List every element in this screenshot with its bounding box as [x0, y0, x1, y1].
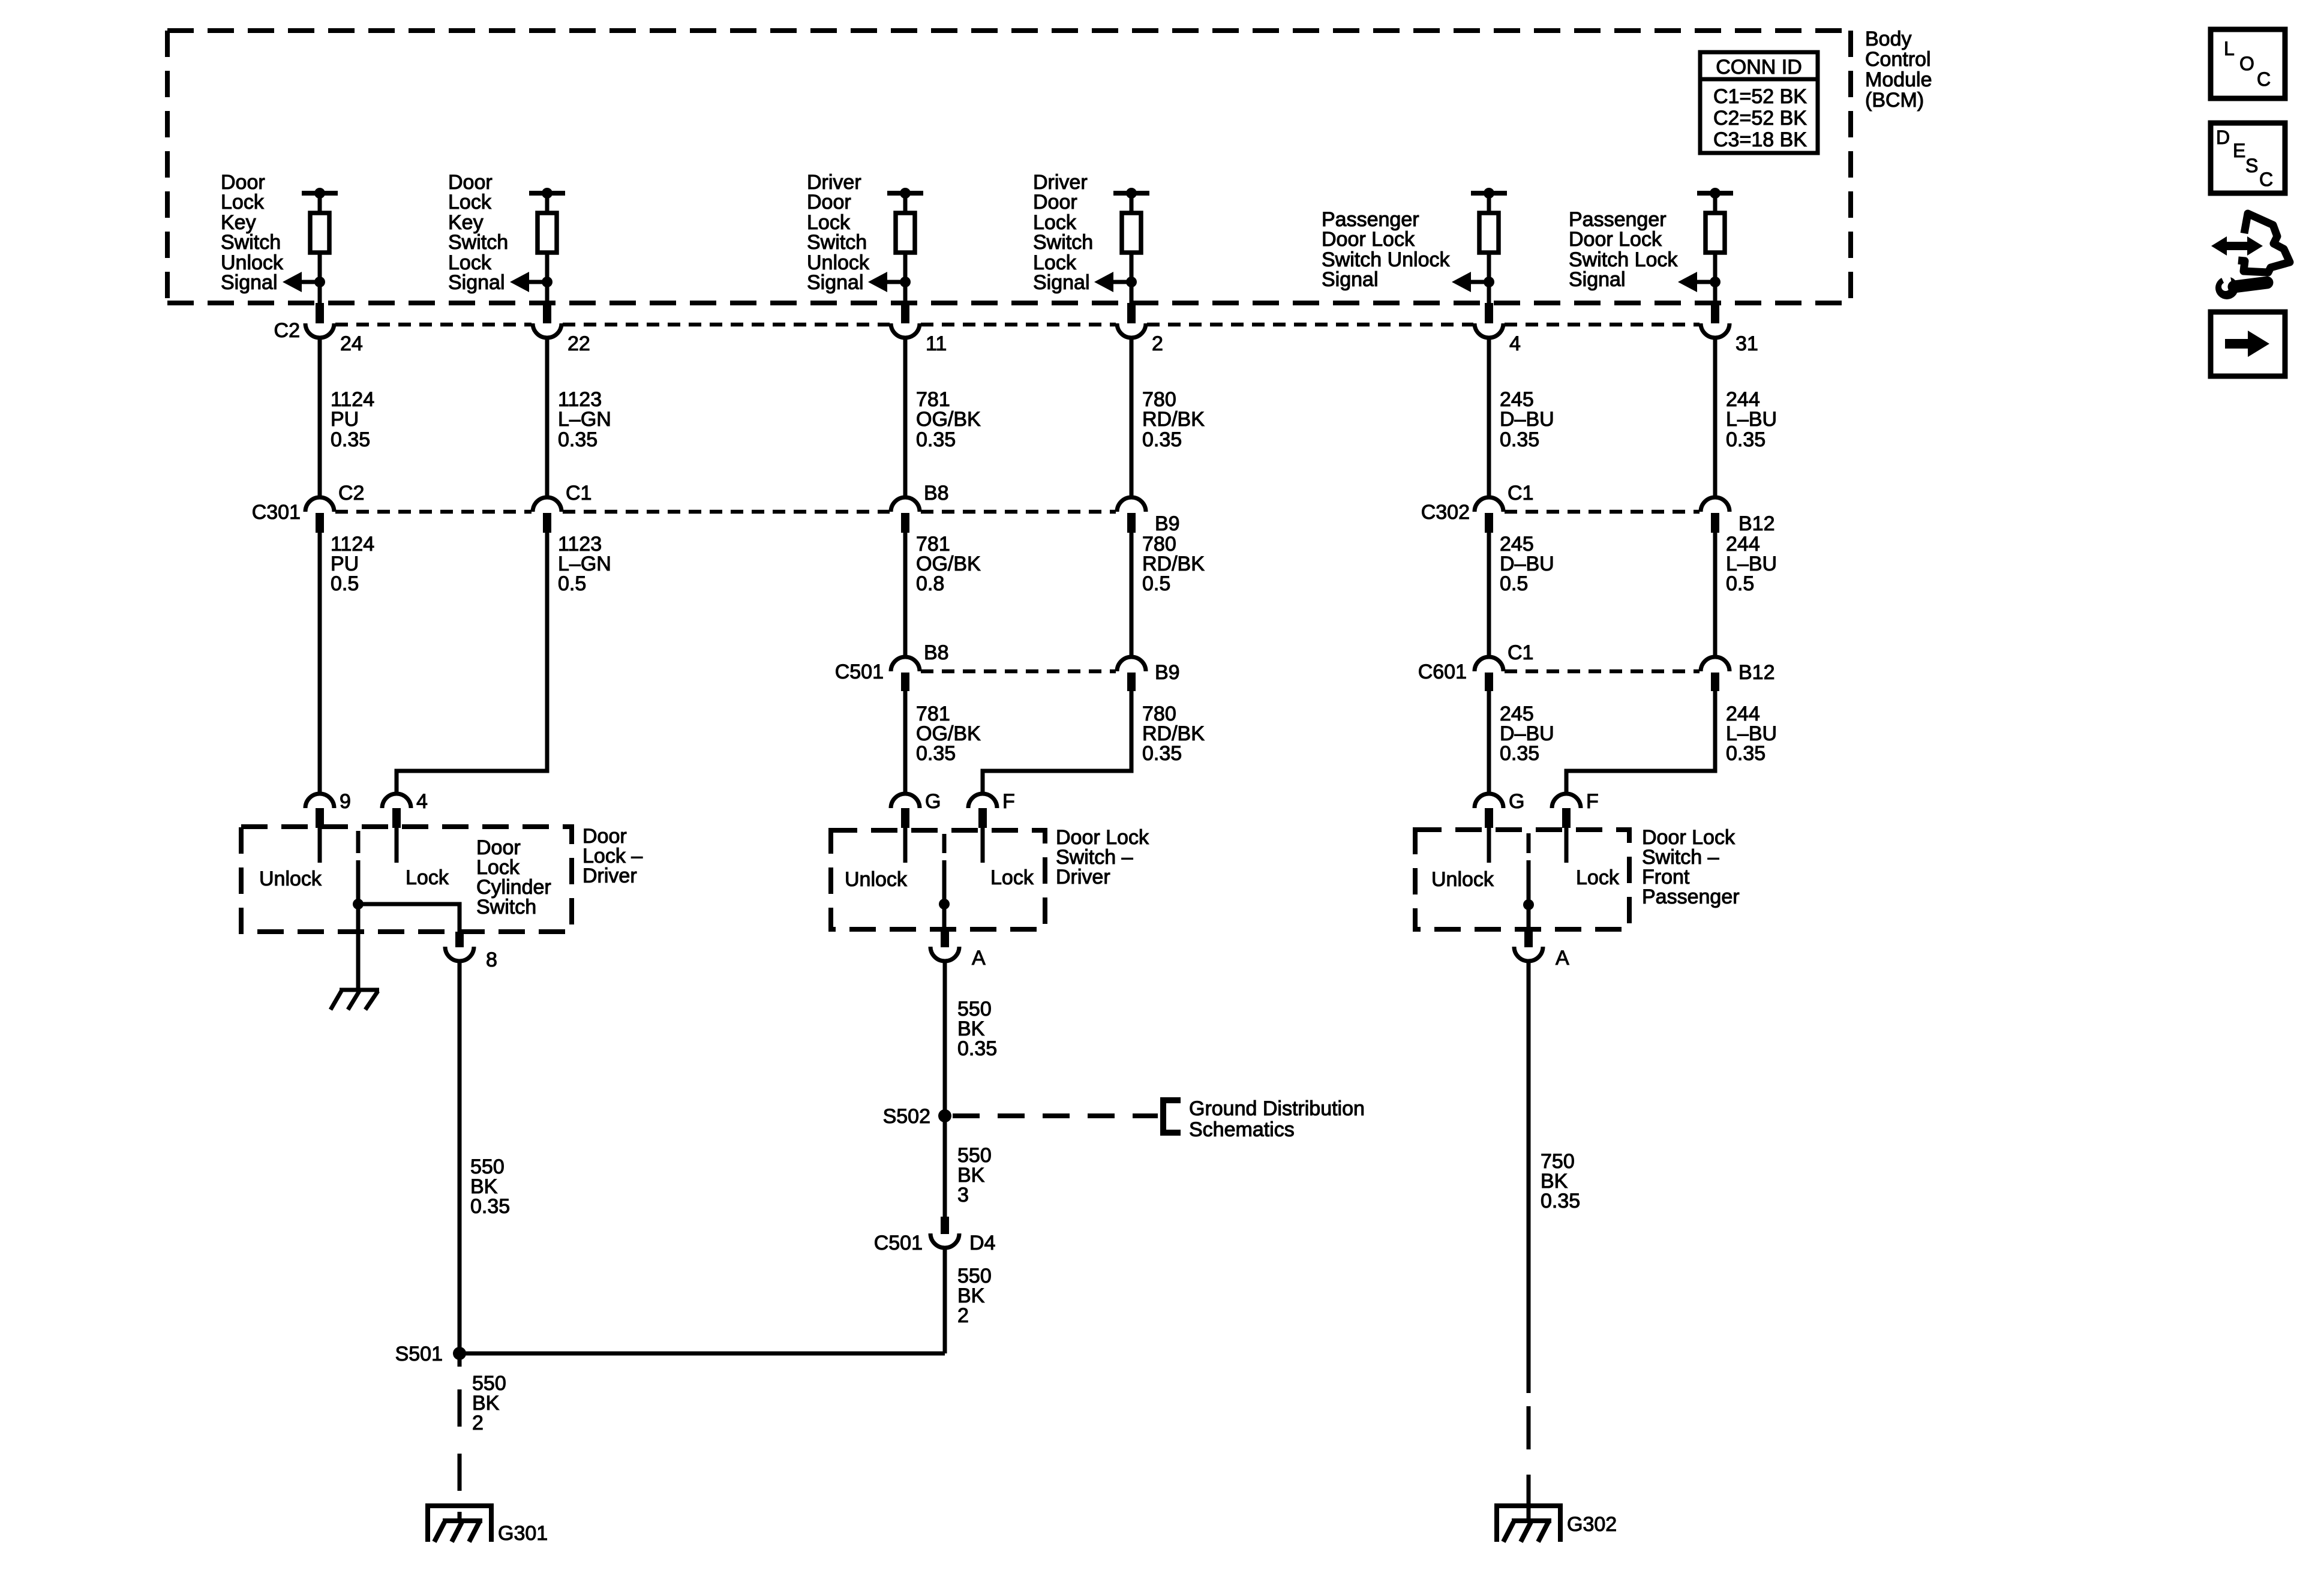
- switch connector terminal 4: [382, 794, 411, 828]
- terminal C1 label: [566, 482, 591, 505]
- in-line connector C501 terminal D4: [930, 1217, 959, 1248]
- switch connector terminal A (driver): [930, 929, 959, 961]
- svg-text:G: G: [925, 790, 941, 813]
- wire: [1713, 253, 1718, 303]
- svg-text:0.35: 0.35: [1500, 742, 1539, 765]
- connector C501/C601 terminal B8: [891, 657, 920, 691]
- signal tap arrow, unit 2: [510, 272, 553, 292]
- resistor (switch sense load), unit 4: [1122, 213, 1141, 253]
- BCM connector C2 cavity 31: [1701, 303, 1730, 338]
- wire: [1713, 193, 1718, 214]
- node: internal supply T-bar, unit 1: [302, 188, 338, 199]
- svg-text:B9: B9: [1155, 512, 1180, 535]
- svg-text:0.35: 0.35: [1541, 1190, 1580, 1212]
- svg-text:Signal: Signal: [807, 271, 864, 294]
- svg-text:D: D: [2216, 127, 2230, 148]
- svg-text:4: 4: [416, 790, 428, 813]
- wire: [1487, 253, 1491, 303]
- svg-text:Door Lock: Door Lock: [1569, 228, 1662, 251]
- ground distribution bracket: [1163, 1100, 1181, 1133]
- terminal A label: [1556, 947, 1569, 969]
- terminal B9 label: [1155, 661, 1180, 684]
- svg-text:(BCM): (BCM): [1865, 89, 1924, 112]
- svg-text:Lock: Lock: [1576, 866, 1620, 889]
- svg-text:Switch: Switch: [221, 231, 281, 254]
- wire label circuit 550: [957, 998, 997, 1060]
- Lock contact label: [990, 866, 1034, 889]
- svg-text:Lock: Lock: [990, 866, 1034, 889]
- Door Lock Key Switch Lock Signal driver label: [448, 171, 508, 294]
- Driver Door Lock Switch Lock Signal driver label: [1033, 171, 1093, 294]
- wire: [545, 253, 550, 303]
- switch connector terminal 8: [445, 932, 474, 961]
- svg-text:0.35: 0.35: [1726, 428, 1765, 451]
- svg-text:Driver: Driver: [1056, 866, 1110, 888]
- svg-text:D–BU: D–BU: [1500, 408, 1554, 431]
- svg-text:Signal: Signal: [448, 271, 505, 294]
- svg-text:C1: C1: [1508, 482, 1533, 505]
- terminal B8 label: [924, 641, 949, 664]
- terminal D4 label: [969, 1232, 995, 1254]
- svg-text:F: F: [1002, 790, 1015, 813]
- svg-text:2: 2: [1152, 332, 1163, 355]
- wire: [903, 193, 908, 214]
- wire D4 to S501 junction: [943, 1248, 947, 1353]
- resistor (switch sense load), unit 6: [1706, 213, 1725, 253]
- svg-text:0.8: 0.8: [916, 572, 944, 595]
- wire label circuit 244: [1726, 388, 1777, 451]
- wire label circuit 244: [1726, 703, 1777, 765]
- ground G302 label: [1567, 1513, 1617, 1536]
- svg-text:B12: B12: [1739, 661, 1775, 684]
- svg-text:C2: C2: [338, 482, 364, 505]
- svg-text:Unlock: Unlock: [1431, 868, 1494, 891]
- wire label circuit 245: [1500, 533, 1554, 595]
- wire label circuit 780: [1142, 703, 1205, 765]
- svg-text:0.35: 0.35: [331, 428, 370, 451]
- svg-text:L–GN: L–GN: [558, 408, 611, 431]
- wire label circuit 750: [1541, 1150, 1580, 1212]
- wire label circuit 1124: [331, 533, 374, 595]
- terminal G label: [1509, 790, 1524, 813]
- connector C501 label: [874, 1232, 923, 1254]
- svg-text:Body: Body: [1865, 28, 1912, 50]
- switch connector terminal F: [968, 794, 997, 828]
- wire: [903, 691, 908, 794]
- svg-text:Driver: Driver: [582, 864, 637, 887]
- connector C30x terminal C1: [1475, 497, 1503, 533]
- svg-text:E: E: [2233, 140, 2245, 161]
- switch connector terminal G: [1475, 794, 1503, 828]
- terminal 4 label: [416, 790, 428, 813]
- svg-text:22: 22: [568, 332, 590, 355]
- wire: lock contact stub: [395, 828, 399, 863]
- wire from lever to ground: [356, 904, 361, 990]
- terminal B12 label: [1739, 512, 1775, 535]
- svg-text:B9: B9: [1155, 661, 1180, 684]
- LOC navigation icon: [2211, 29, 2285, 98]
- in-line connector C302 dotted line: [1505, 510, 1700, 514]
- wire: [1487, 338, 1491, 499]
- svg-text:RD/BK: RD/BK: [1142, 408, 1205, 431]
- wire: [1713, 533, 1718, 658]
- wire: [903, 338, 908, 499]
- switch lever, cylinder switch: [353, 831, 364, 909]
- wire: [1130, 253, 1134, 303]
- wire: [1487, 691, 1491, 794]
- svg-text:PU: PU: [331, 408, 359, 431]
- wire label circuit 550 gauge 2: [472, 1372, 506, 1434]
- switch connector terminal G: [891, 794, 920, 828]
- Lock contact label: [406, 866, 449, 889]
- wire label circuit 550: [470, 1155, 510, 1218]
- wire label circuit 1124: [331, 388, 374, 451]
- Driver Door Lock Switch Unlock Signal driver label: [807, 171, 870, 294]
- dashed reference line to ground distribution: [953, 1113, 1158, 1118]
- svg-text:0.35: 0.35: [1500, 428, 1539, 451]
- svg-text:F: F: [1586, 790, 1599, 813]
- repair instructions icon (arrow, panel outline, wrench): [2211, 214, 2290, 299]
- wire terminal A to G302: [1527, 961, 1531, 1393]
- wire: [318, 338, 322, 499]
- CONN ID table: [1700, 52, 1818, 153]
- svg-text:Passenger: Passenger: [1642, 885, 1740, 908]
- svg-text:S: S: [2245, 155, 2258, 176]
- splice S501: [453, 1347, 466, 1360]
- svg-text:Switch: Switch: [1033, 231, 1093, 254]
- splice S501 label: [395, 1343, 443, 1365]
- in-line connector C501 dotted line: [921, 670, 1116, 674]
- wire: [1130, 533, 1134, 658]
- Body Control Module (BCM) dashed box: [167, 31, 1851, 303]
- Door Lock Key Switch Unlock Signal driver label: [221, 171, 284, 294]
- wire: [318, 193, 322, 214]
- in-line connector C601 dotted line: [1505, 670, 1700, 674]
- splice S502: [938, 1109, 951, 1122]
- wire from lever to pin 8: [358, 904, 460, 932]
- switch lever, driver door lock switch: [939, 834, 950, 909]
- svg-text:C2=52 BK: C2=52 BK: [1713, 107, 1807, 130]
- DESC navigation icon: [2211, 123, 2285, 193]
- Door Lock Cylinder Switch internal label: [476, 836, 551, 918]
- svg-text:L: L: [2224, 38, 2235, 59]
- svg-text:0.35: 0.35: [1142, 742, 1182, 765]
- connector row C2 dotted harness line: [335, 323, 1700, 327]
- terminal C1 label: [1508, 482, 1533, 505]
- terminal C2 label: [338, 482, 364, 505]
- wire label circuit 781: [916, 533, 981, 595]
- svg-text:0.5: 0.5: [1726, 572, 1754, 595]
- svg-text:0.35: 0.35: [470, 1195, 510, 1218]
- ground G302: [1494, 1503, 1563, 1542]
- svg-text:Schematics: Schematics: [1189, 1118, 1295, 1141]
- wire: [318, 253, 322, 303]
- svg-text:Door: Door: [807, 191, 851, 214]
- svg-text:OG/BK: OG/BK: [916, 408, 981, 431]
- svg-text:C501: C501: [835, 661, 884, 683]
- svg-text:24: 24: [340, 332, 363, 355]
- svg-text:B12: B12: [1739, 512, 1775, 535]
- wire: unlock contact stub: [318, 828, 322, 863]
- svg-text:A: A: [972, 947, 986, 969]
- wire: [545, 193, 550, 214]
- svg-text:C2: C2: [274, 319, 300, 342]
- wire: unlock contact stub: [1487, 828, 1491, 863]
- svg-text:0.35: 0.35: [1726, 742, 1765, 765]
- wire: [1487, 533, 1491, 658]
- svg-text:C601: C601: [1418, 661, 1467, 683]
- Ground Distribution Schematics note: [1189, 1097, 1365, 1141]
- BCM connector C2 cavity 4: [1475, 303, 1503, 338]
- wire terminal A to S502: [943, 961, 947, 1116]
- svg-text:S501: S501: [395, 1343, 443, 1365]
- wire: [1130, 193, 1134, 214]
- wire label circuit 550 gauge 3: [957, 1144, 992, 1206]
- wire label circuit 245: [1500, 388, 1554, 451]
- svg-text:Signal: Signal: [1569, 268, 1626, 291]
- node: internal supply T-bar, unit 5: [1471, 188, 1507, 199]
- resistor (switch sense load), unit 5: [1479, 213, 1499, 253]
- svg-text:9: 9: [340, 790, 351, 813]
- switch connector terminal A (passenger): [1514, 929, 1543, 961]
- connector C501 label: [835, 661, 884, 683]
- svg-text:C301: C301: [252, 501, 301, 524]
- wire: [545, 338, 550, 499]
- svg-text:G: G: [1509, 790, 1524, 813]
- svg-text:2: 2: [957, 1304, 969, 1327]
- signal tap arrow, unit 1: [283, 272, 325, 292]
- wire S502 to C501 D4: [943, 1116, 947, 1217]
- wire label circuit 244: [1726, 533, 1777, 595]
- svg-text:2: 2: [472, 1412, 484, 1434]
- pin 4 label: [1509, 332, 1521, 355]
- svg-text:0.5: 0.5: [1500, 572, 1528, 595]
- svg-text:11: 11: [926, 332, 947, 355]
- node: internal supply T-bar, unit 2: [529, 188, 565, 199]
- svg-text:C302: C302: [1421, 501, 1470, 524]
- svg-text:O: O: [2239, 53, 2254, 74]
- svg-text:G301: G301: [498, 1522, 548, 1545]
- wire dashed off-page to G302: [1527, 1406, 1531, 1523]
- svg-text:D4: D4: [969, 1232, 995, 1254]
- svg-text:Door Lock: Door Lock: [1322, 228, 1415, 251]
- terminal 8 label: [486, 948, 497, 971]
- wire lever to terminal A: [942, 904, 947, 929]
- svg-text:B8: B8: [924, 641, 949, 664]
- svg-text:Unlock: Unlock: [845, 868, 908, 891]
- next page arrow icon: [2211, 312, 2285, 376]
- wire with jog to passenger lock switch pin F: [1566, 691, 1715, 794]
- svg-text:4: 4: [1509, 332, 1521, 355]
- node: internal supply T-bar, unit 3: [887, 188, 923, 199]
- wire pin 8 to S501: [458, 961, 462, 1353]
- svg-text:Switch: Switch: [448, 231, 508, 254]
- svg-text:Lock: Lock: [221, 191, 265, 214]
- svg-text:A: A: [1556, 947, 1569, 969]
- BCM connector C2 cavity 11: [891, 303, 920, 338]
- svg-text:Control: Control: [1865, 48, 1931, 71]
- in-line connector C301 dotted line: [335, 510, 1116, 514]
- svg-text:Ground Distribution: Ground Distribution: [1189, 1097, 1365, 1120]
- svg-text:31: 31: [1736, 332, 1758, 355]
- ground G301 label: [498, 1522, 548, 1545]
- svg-text:C: C: [2259, 169, 2273, 190]
- terminal F label: [1002, 790, 1015, 813]
- svg-text:L–BU: L–BU: [1726, 408, 1777, 431]
- switch lever, passenger door lock switch: [1523, 833, 1534, 910]
- switch connector terminal 9: [305, 794, 334, 828]
- connector C601 label: [1418, 661, 1467, 683]
- wire label circuit 780: [1142, 533, 1205, 595]
- svg-text:Unlock: Unlock: [259, 867, 322, 890]
- BCM name label: [1865, 28, 1932, 112]
- wire with jog to driver lock switch pin F: [983, 691, 1131, 794]
- svg-text:C1=52 BK: C1=52 BK: [1713, 85, 1807, 108]
- svg-text:Signal: Signal: [1322, 268, 1379, 291]
- svg-text:Module: Module: [1865, 68, 1932, 91]
- signal tap arrow, unit 5: [1452, 272, 1494, 292]
- chassis ground (cylinder switch): [331, 990, 379, 1010]
- Door Lock Switch - Front Passenger label: [1642, 826, 1740, 908]
- terminal B12 label: [1739, 661, 1775, 684]
- connector C30x terminal B9: [1117, 497, 1146, 533]
- Lock contact label: [1576, 866, 1620, 889]
- wire label circuit 781: [916, 703, 981, 765]
- wire: [1713, 338, 1718, 499]
- svg-text:C501: C501: [874, 1232, 923, 1254]
- wire label circuit 245: [1500, 703, 1554, 765]
- connector C301 label: [252, 501, 301, 524]
- terminal C1 label: [1508, 641, 1533, 664]
- Unlock contact label: [845, 868, 908, 891]
- wire label circuit 1123: [558, 388, 611, 451]
- Door Lock - Driver label: [582, 825, 642, 887]
- svg-text:C: C: [2257, 68, 2271, 90]
- Door Lock Switch - Front Passenger dashed box: [1415, 830, 1629, 929]
- svg-text:Lock: Lock: [406, 866, 449, 889]
- svg-text:C3=18 BK: C3=18 BK: [1713, 128, 1807, 151]
- Unlock contact label: [1431, 868, 1494, 891]
- signal tap arrow, unit 4: [1094, 272, 1137, 292]
- resistor (switch sense load), unit 3: [896, 213, 915, 253]
- wire S501 to G301 (dashed off-page): [458, 1353, 462, 1523]
- svg-text:B8: B8: [924, 482, 949, 505]
- svg-text:0.35: 0.35: [916, 428, 956, 451]
- wire: lock contact stub: [981, 828, 985, 863]
- Door Lock Switch - Driver label: [1056, 826, 1149, 888]
- splice S502 label: [883, 1105, 930, 1128]
- resistor (switch sense load), unit 2: [538, 213, 557, 253]
- node: internal supply T-bar, unit 6: [1697, 188, 1733, 199]
- pin 2 label: [1152, 332, 1163, 355]
- terminal B9 label: [1155, 512, 1180, 535]
- connector C30x terminal C1: [533, 497, 562, 533]
- svg-text:3: 3: [957, 1184, 969, 1206]
- svg-text:Lock: Lock: [448, 191, 492, 214]
- svg-text:0.35: 0.35: [916, 742, 956, 765]
- wire: [1130, 338, 1134, 499]
- connector C501/C601 terminal B9: [1117, 657, 1146, 691]
- svg-text:0.5: 0.5: [558, 572, 586, 595]
- svg-text:Signal: Signal: [221, 271, 278, 294]
- wire: [903, 253, 908, 303]
- Unlock contact label: [259, 867, 322, 890]
- svg-text:G302: G302: [1567, 1513, 1617, 1536]
- BCM connector C2 cavity 2: [1117, 303, 1146, 338]
- connector C30x terminal B12: [1701, 497, 1730, 533]
- wire label circuit 780: [1142, 388, 1205, 451]
- svg-text:C1: C1: [566, 482, 591, 505]
- svg-text:8: 8: [486, 948, 497, 971]
- svg-text:Door: Door: [1033, 191, 1077, 214]
- svg-text:0.35: 0.35: [1142, 428, 1182, 451]
- svg-text:Signal: Signal: [1033, 271, 1090, 294]
- svg-text:CONN ID: CONN ID: [1716, 56, 1802, 79]
- connector C501/C601 terminal C1: [1475, 657, 1503, 691]
- pin 31 label: [1736, 332, 1758, 355]
- connector C30x terminal C2: [305, 497, 334, 533]
- svg-text:0.35: 0.35: [558, 428, 597, 451]
- Passenger Door Lock Switch Lock Signal driver label: [1569, 208, 1678, 291]
- wire: unlock contact stub: [903, 828, 908, 863]
- wire with jog to lock cylinder pin 4: [397, 533, 547, 794]
- Passenger Door Lock Switch Unlock Signal driver label: [1322, 208, 1451, 291]
- svg-text:Switch: Switch: [476, 896, 536, 918]
- svg-text:0.5: 0.5: [1142, 572, 1170, 595]
- connector C2 label: [274, 319, 300, 342]
- pin 22 label: [568, 332, 590, 355]
- node: internal supply T-bar, unit 4: [1113, 188, 1149, 199]
- connector C501/C601 terminal B12: [1701, 657, 1730, 691]
- terminal B8 label: [924, 482, 949, 505]
- svg-text:S502: S502: [883, 1105, 930, 1128]
- terminal A label: [972, 947, 986, 969]
- wire label circuit 1123: [558, 533, 611, 595]
- svg-text:Switch: Switch: [807, 231, 867, 254]
- BCM connector C2 cavity 24: [305, 303, 334, 338]
- pin 24 label: [340, 332, 363, 355]
- BCM connector C2 cavity 22: [533, 303, 562, 338]
- svg-text:0.5: 0.5: [331, 572, 359, 595]
- signal tap arrow, unit 6: [1678, 272, 1721, 292]
- signal tap arrow, unit 3: [868, 272, 911, 292]
- wire: [1487, 193, 1491, 214]
- wire label circuit 781: [916, 388, 981, 451]
- Door Lock Switch - Driver dashed box: [831, 830, 1045, 929]
- connector C30x terminal B8: [891, 497, 920, 533]
- wire label circuit 550 gauge 2: [957, 1265, 992, 1327]
- wire lever to terminal A: [1527, 905, 1531, 929]
- resistor (switch sense load), unit 1: [310, 213, 329, 253]
- switch connector terminal F: [1552, 794, 1581, 828]
- svg-text:0.35: 0.35: [957, 1037, 997, 1060]
- ground G301: [425, 1503, 494, 1542]
- connector C302 label: [1421, 501, 1470, 524]
- terminal 9 label: [340, 790, 351, 813]
- wire: [318, 533, 322, 794]
- terminal G label: [925, 790, 941, 813]
- svg-text:C1: C1: [1508, 641, 1533, 664]
- wire: [903, 533, 908, 658]
- wire: lock contact stub: [1565, 828, 1569, 863]
- wire S501 to C501 D4 branch: [460, 1352, 945, 1356]
- Door Lock Cylinder Switch dashed box: [241, 827, 572, 932]
- terminal F label: [1586, 790, 1599, 813]
- pin 11 label: [926, 332, 947, 355]
